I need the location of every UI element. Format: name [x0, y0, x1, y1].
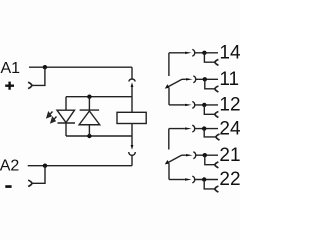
wire 24 terminal branch — [204, 129, 216, 137]
svg-text:14: 14 — [219, 42, 240, 63]
wire NO contact drop (24) — [168, 129, 170, 150]
LED emission arrow 2 — [51, 117, 57, 123]
pin arrow 12 — [185, 104, 192, 106]
socket 14 terminal fork — [215, 59, 219, 65]
pin arrow 21 — [186, 154, 193, 156]
wire contact 12 row — [169, 104, 185, 106]
svg-text:A2: A2 — [0, 157, 19, 174]
node 21 — [203, 153, 207, 157]
wire contact 24 row — [169, 128, 185, 130]
pin arrow coil lower — [131, 145, 134, 150]
wire 24 to label — [195, 128, 218, 130]
wire A1 terminal branch — [32, 67, 45, 85]
socket 12 — [192, 102, 194, 109]
socket 24 — [192, 125, 194, 132]
svg-text:21: 21 — [219, 145, 240, 166]
socket 24 terminal fork — [216, 134, 220, 140]
node 14 — [202, 51, 206, 55]
pin arrow 22 — [185, 178, 192, 180]
wire NC pivot drop (22) — [168, 164, 170, 180]
diode D2 cathode bar — [80, 109, 100, 111]
svg-text:A1: A1 — [1, 60, 21, 77]
wire A1 drop to plug — [131, 67, 133, 78]
wire 11 to label — [196, 78, 218, 80]
socket 14 — [192, 49, 194, 56]
svg-text:24: 24 — [219, 118, 240, 139]
node A2 junction — [43, 164, 47, 168]
wire 21 terminal branch — [205, 155, 215, 165]
socket A1 terminal fork — [28, 82, 32, 88]
socket coil plug lower — [129, 152, 136, 155]
wire contact 22 row — [169, 179, 185, 181]
wire A2 horizontal — [28, 165, 132, 167]
pin arrow 14 — [185, 52, 192, 54]
wire diode branch lower — [88, 125, 90, 136]
LED D1 — [57, 110, 75, 122]
node 11 — [203, 77, 207, 81]
wire A2 terminal branch — [32, 166, 45, 184]
wire 11 terminal branch — [205, 79, 215, 89]
node 24 — [202, 126, 206, 130]
wire contact 11 row — [182, 78, 186, 80]
wire 14 terminal branch — [204, 53, 214, 62]
socket 22 terminal fork — [215, 186, 219, 192]
node top rail diode tap — [87, 95, 91, 99]
wire 22 terminal branch — [204, 180, 215, 189]
socket 21 — [193, 152, 195, 159]
LED cathode bar — [58, 122, 76, 124]
minus polarity mark — [5, 185, 11, 188]
wire NC pivot drop (12) — [168, 88, 170, 105]
wire 14 to label — [195, 52, 218, 54]
node bottom rail diode tap — [87, 134, 91, 138]
svg-text:12: 12 — [219, 95, 240, 116]
socket 11 — [193, 76, 195, 83]
socket coil plug upper — [129, 79, 135, 81]
socket 12 terminal fork — [215, 112, 219, 118]
svg-text:22: 22 — [219, 169, 240, 190]
wire top rail — [66, 96, 132, 98]
wire plug to coil top — [131, 87, 133, 113]
pin arrow coil upper — [131, 82, 134, 87]
socket 11 terminal fork — [215, 86, 219, 92]
wire contact 14 row — [169, 52, 185, 54]
lever arrowhead group 1 — [165, 84, 170, 88]
LED emission arrow 1 — [47, 112, 53, 118]
wire contact 21 row — [182, 154, 186, 156]
socket 22 — [192, 176, 194, 183]
node A1 junction — [43, 65, 47, 69]
wire diode branch upper — [88, 97, 90, 110]
relay coil K1 — [117, 112, 146, 123]
contact lever group 2 — [167, 155, 182, 163]
wire LED branch lower — [65, 123, 67, 136]
wire plug to A2 — [131, 155, 133, 166]
wire 12 terminal branch — [204, 105, 215, 114]
pin arrow 11 — [186, 78, 193, 80]
socket 21 terminal fork — [215, 162, 219, 168]
wire A1 horizontal — [29, 66, 132, 68]
pin arrow 24 — [185, 127, 192, 129]
wire LED branch upper — [65, 97, 67, 111]
contact lever group 1 — [167, 79, 182, 87]
wire 21 to label — [196, 154, 218, 156]
lever arrowhead group 2 — [165, 160, 170, 164]
wire NO contact drop (14) — [168, 53, 170, 76]
wire bottom rail — [66, 135, 132, 137]
wire coil bottom — [131, 124, 133, 146]
socket A2 terminal fork — [28, 180, 32, 186]
wire 12 to label — [195, 104, 218, 106]
wire 22 to label — [195, 179, 218, 181]
node 12 — [202, 103, 206, 107]
svg-text:11: 11 — [219, 69, 239, 90]
node 22 — [202, 177, 206, 181]
plus polarity mark — [5, 82, 14, 90]
diode D2 — [79, 111, 100, 125]
